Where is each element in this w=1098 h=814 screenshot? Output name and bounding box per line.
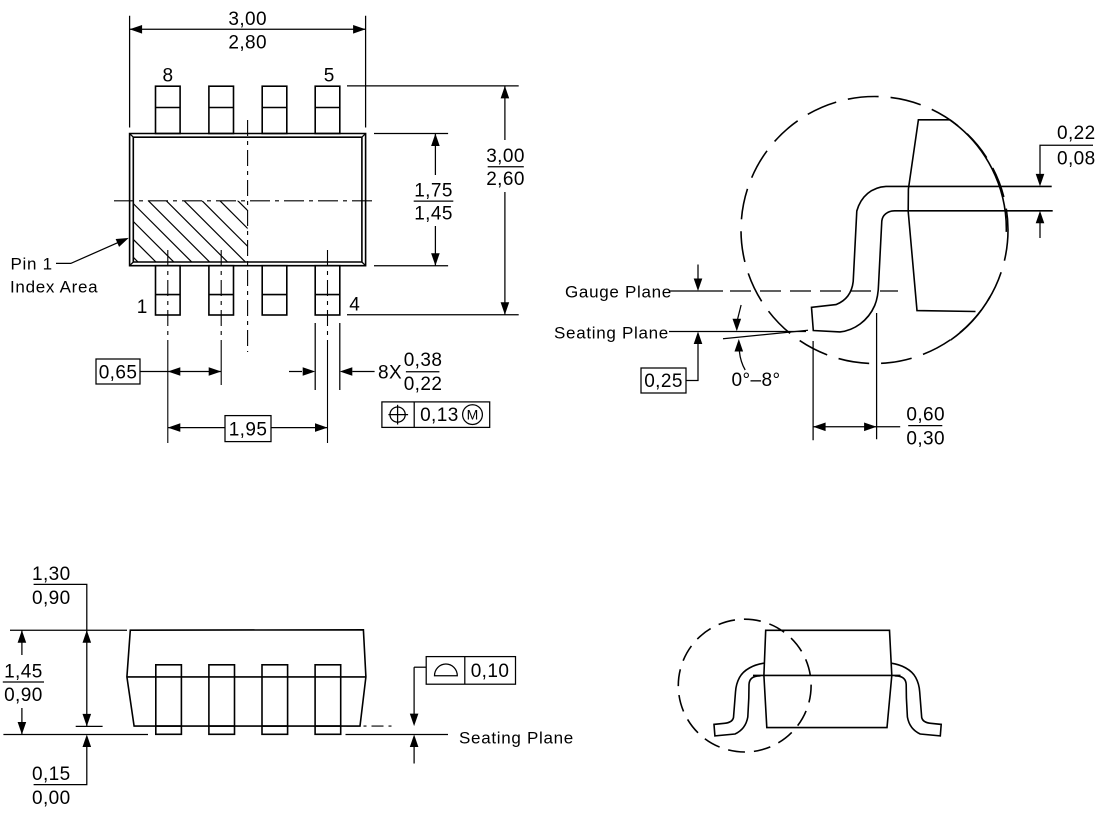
side view parting line xyxy=(127,676,366,678)
svg-text:2,80: 2,80 xyxy=(228,33,267,54)
svg-text:0,90: 0,90 xyxy=(32,588,71,609)
end view right lead xyxy=(891,663,941,736)
side view pin 3 xyxy=(262,665,288,735)
detail circle solid arc right lower xyxy=(951,297,991,340)
dim 0,22/0,08 leader and arrows xyxy=(1040,145,1060,174)
svg-text:Index Area: Index Area xyxy=(10,278,98,297)
svg-text:1,30: 1,30 xyxy=(32,564,71,585)
dim 1,95 box xyxy=(225,416,271,442)
horizontal centerline xyxy=(114,200,376,202)
svg-text:1,45: 1,45 xyxy=(414,204,453,225)
top pin 5 xyxy=(315,86,340,133)
lead bend profile outline xyxy=(812,186,1053,332)
dim 1,75/1,45 extension lines xyxy=(374,134,448,266)
side view pin 2 xyxy=(209,665,235,735)
svg-text:0°–8°: 0°–8° xyxy=(732,370,781,391)
dim 1,75/1,45 dimension line xyxy=(434,134,436,266)
svg-text:8: 8 xyxy=(163,66,174,87)
end view dashed circle xyxy=(678,619,811,752)
svg-text:0,22: 0,22 xyxy=(1057,123,1096,144)
vertical centerline xyxy=(247,120,249,352)
flatness feature control frame 0,10 xyxy=(426,657,515,685)
svg-text:8X: 8X xyxy=(378,363,402,384)
bottom pin 3 xyxy=(262,266,287,315)
svg-text:1: 1 xyxy=(137,297,148,318)
top pin 6 xyxy=(262,86,287,133)
svg-text:Seating Plane: Seating Plane xyxy=(459,729,574,748)
svg-text:0,65: 0,65 xyxy=(99,363,138,384)
seating plane line right xyxy=(346,734,449,736)
pin 4 centerline extension xyxy=(327,250,329,352)
pin 2 centerline extension xyxy=(220,250,222,352)
svg-text:0,30: 0,30 xyxy=(906,429,945,450)
dim 8X 0,38/0,22 arrows xyxy=(289,371,302,373)
dim 3,00/2,80 extension lines xyxy=(130,16,366,128)
svg-text:Pin 1: Pin 1 xyxy=(11,255,53,274)
svg-text:0,25: 0,25 xyxy=(644,371,683,392)
dim 1,30/0,90 leader and line xyxy=(69,584,87,726)
svg-text:Seating Plane: Seating Plane xyxy=(554,324,669,343)
top pin 8 xyxy=(156,86,181,133)
detail circle solid arc right upper xyxy=(950,120,1007,232)
bottom pin 4 xyxy=(315,266,340,315)
dim 0,60/0,30 dimension line xyxy=(813,426,900,428)
dim 1,95 dimension line xyxy=(168,427,328,429)
lead end blade outline xyxy=(908,120,975,312)
svg-text:0,22: 0,22 xyxy=(404,374,443,395)
svg-text:4: 4 xyxy=(349,295,360,316)
pin 1 centerline extension xyxy=(167,250,169,352)
dim 0,15/0,00 leader arrow xyxy=(69,747,87,785)
svg-text:0,15: 0,15 xyxy=(32,764,71,785)
svg-text:M: M xyxy=(467,407,479,423)
end view mid line xyxy=(753,674,901,676)
foot top dashed extension xyxy=(347,725,395,727)
svg-text:1,45: 1,45 xyxy=(4,661,43,682)
end view body outline xyxy=(764,630,892,727)
dim 0,60/0,30 extension lines xyxy=(813,313,877,440)
top extension line xyxy=(10,629,127,631)
dim 3,00/2,60 extension lines xyxy=(347,86,519,315)
dim 1,45/0,90 xyxy=(21,630,23,655)
svg-text:0,13: 0,13 xyxy=(420,405,459,426)
angle dim arrows 0-8 deg xyxy=(738,305,742,319)
end view left lead xyxy=(714,663,764,736)
side view pin 4 xyxy=(315,665,341,735)
svg-text:0,08: 0,08 xyxy=(1057,148,1096,169)
body corner bevels xyxy=(130,134,366,266)
feature control frame: position 0,13 M xyxy=(382,402,490,428)
gauge plane line xyxy=(669,290,723,292)
svg-text:0,60: 0,60 xyxy=(906,405,945,426)
seating plane left segment xyxy=(3,734,148,736)
svg-text:5: 5 xyxy=(324,66,335,87)
pin1 index area hatch xyxy=(66,190,327,290)
bottom pin 2 xyxy=(209,266,234,315)
svg-text:3,00: 3,00 xyxy=(228,9,267,30)
seating plane line xyxy=(669,331,806,333)
package body outline (inner) xyxy=(133,137,362,262)
dim 0,65 leader and arrows xyxy=(140,371,221,373)
side view pin 1 xyxy=(156,665,182,735)
svg-text:1,95: 1,95 xyxy=(229,420,268,441)
svg-text:0,38: 0,38 xyxy=(404,350,443,371)
flatness arrows xyxy=(413,667,415,714)
package body outline (outer) xyxy=(130,134,366,266)
svg-text:0,10: 0,10 xyxy=(471,661,510,682)
svg-text:0,00: 0,00 xyxy=(32,788,71,809)
dim 0,65 box xyxy=(96,359,140,384)
svg-text:1,75: 1,75 xyxy=(414,181,453,202)
detail boundary dashed circle xyxy=(741,97,1008,364)
dim 0,25 box xyxy=(641,368,686,393)
top pin 7 xyxy=(209,86,234,133)
svg-text:3,00: 3,00 xyxy=(486,146,525,167)
dim 3,00/2,80 dimension line xyxy=(130,28,366,30)
side view body outline xyxy=(127,630,366,726)
dim 0,25 leader arrow xyxy=(686,344,698,381)
bottom pin 1 xyxy=(156,266,181,315)
lead foot 0-8 degree slant line xyxy=(723,330,808,339)
gauge plane arrow xyxy=(697,265,699,281)
svg-text:0,90: 0,90 xyxy=(4,685,43,706)
flatness leader xyxy=(414,666,426,668)
pin1 leader arrow xyxy=(56,243,118,264)
svg-text:2,60: 2,60 xyxy=(486,169,525,190)
dim 3,00/2,60 dimension line xyxy=(504,86,506,315)
pin 4 edge extension lines xyxy=(315,323,340,390)
body bottom extension line xyxy=(76,725,103,727)
svg-text:Gauge Plane: Gauge Plane xyxy=(565,283,672,302)
